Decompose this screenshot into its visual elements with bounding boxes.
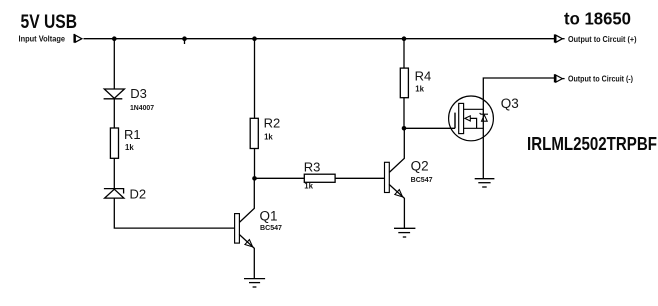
wire top +5V rail [84,38,555,40]
mosfet Q3 [449,96,494,141]
resistor R3 [304,174,335,182]
svg-text:Q1: Q1 [260,208,278,223]
wire R4 to gate node [403,98,405,129]
svg-text:1k: 1k [264,132,273,141]
svg-text:IRLML2502TRPBF: IRLML2502TRPBF [527,134,657,154]
wire D3 anode [113,39,115,89]
node junction on top rail at R2 branch [252,36,257,41]
svg-text:BC547: BC547 [260,223,282,232]
node junction R4/Q2 collector/Q3 gate [402,126,407,131]
diode D3 [104,89,125,99]
output port to circuit plus [555,34,565,42]
svg-text:R2: R2 [264,116,281,131]
wire R4 branch from top rail [403,39,405,68]
svg-text:R3: R3 [304,159,321,174]
wire Q3 drain to output minus [483,78,554,179]
svg-text:R4: R4 [415,68,432,83]
svg-text:Output to Circuit (-): Output to Circuit (-) [568,74,633,84]
node junction stub on top rail [182,36,187,44]
ground below Q3 [475,179,495,187]
node junction on top rail at R4 branch [402,36,407,41]
wire node to R3 [255,177,305,179]
resistor R1 [110,128,118,158]
wire R2 branch from top rail [254,39,256,119]
svg-text:Q3: Q3 [501,96,519,111]
wire D2 to Q1 base [114,198,234,228]
svg-text:Q2: Q2 [411,158,429,173]
transistor Q1 [235,178,255,278]
transistor Q2 [385,128,405,228]
svg-text:Output to Circuit (+): Output to Circuit (+) [568,34,637,44]
svg-text:5V USB: 5V USB [21,12,78,33]
svg-text:1N4007: 1N4007 [130,103,154,112]
wire D3 cathode to R1 [113,99,115,128]
node junction R2/R3/Q1 collector [252,176,257,181]
ground below Q1 [244,279,265,287]
resistor R2 [250,118,258,148]
diode D2 [104,189,124,199]
svg-text:1k: 1k [125,143,134,152]
svg-text:D2: D2 [130,186,147,201]
svg-text:Input Voltage: Input Voltage [19,34,66,44]
svg-text:to 18650: to 18650 [564,9,631,29]
node junction on top rail at D3 branch [112,36,117,41]
svg-text:BC547: BC547 [411,175,433,184]
svg-text:1k: 1k [415,84,424,93]
svg-text:D3: D3 [130,86,147,101]
wire gate node to Q3 [404,127,455,129]
svg-text:1k: 1k [304,182,313,191]
resistor R4 [400,68,408,98]
wire R3 to Q2 base [335,177,384,179]
input port InputVoltage [74,34,82,43]
svg-text:R1: R1 [124,127,141,142]
wire R1 to D2 [113,158,115,188]
wire R2 to collector node [254,149,256,179]
ground below Q2 [394,228,415,237]
output port to circuit minus [555,74,565,82]
